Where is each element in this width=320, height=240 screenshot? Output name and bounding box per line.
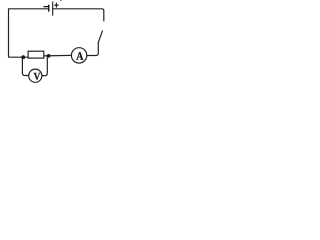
resistor R1: [28, 51, 44, 58]
battery positive plate (long): [52, 1, 54, 15]
wire voltmeter branch right: [42, 56, 47, 76]
scan artifact speck: [60, 0, 62, 1]
ammeter label A: [76, 52, 83, 60]
voltmeter label V: [34, 73, 41, 80]
wire middle row left: [8, 56, 28, 58]
node dot left: [21, 55, 25, 59]
voltmeter V1: [29, 69, 42, 82]
wire middle row between resistor and ammeter: [44, 54, 72, 57]
node dot right: [47, 54, 51, 58]
plus label: [54, 3, 58, 8]
wire voltmeter branch left: [22, 57, 28, 75]
wire left vertical: [8, 9, 10, 57]
ammeter A1: [71, 48, 86, 63]
battery negative plate (short): [48, 5, 50, 12]
wire top right (battery to right corner): [53, 9, 104, 22]
wire ammeter to right column: [87, 42, 99, 55]
wire top left (to battery): [8, 8, 48, 10]
switch S1 blade: [98, 30, 102, 42]
minus label: [44, 6, 49, 8]
battery B1: [44, 1, 59, 15]
